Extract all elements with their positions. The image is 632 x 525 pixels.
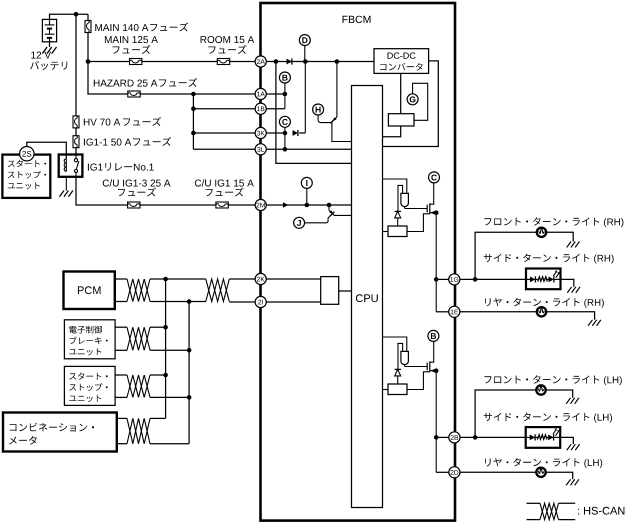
wire 3K diode out: [299, 132, 305, 134]
wire to 1E circle: [436, 311, 449, 313]
junction node hazard 1A: [191, 92, 196, 97]
wire ss CAN-H: [115, 374, 127, 376]
wire CU fuse to 2M: [228, 204, 255, 206]
connector 2M: [255, 199, 266, 210]
junction 2M I: [305, 203, 310, 208]
wire battery ground stub: [49, 42, 51, 47]
node J wire: [305, 214, 332, 223]
wire 1B internal: [266, 108, 285, 110]
node H: [313, 104, 324, 115]
CPU label: [356, 294, 378, 302]
wire side RH gnd: [561, 279, 574, 286]
wire 1G left: [436, 278, 449, 280]
start-stop unit 2 text: [69, 373, 107, 380]
node C: [279, 116, 290, 127]
junction CAN-H ss: [163, 373, 168, 378]
wire 2A branch to CPU: [276, 62, 352, 164]
wire gate LH: [404, 365, 406, 367]
wire side LH gnd: [560, 437, 573, 444]
ground relay coil: [59, 191, 72, 197]
junction 2A branch2: [303, 59, 308, 64]
connector 2I: [255, 296, 266, 307]
fuse IG1-1 50A: [73, 136, 79, 148]
wire ROOM to 2A: [230, 61, 255, 63]
wire DC-DC out right: [383, 61, 439, 147]
battery label 12V: [31, 52, 51, 59]
wire between CU fuses: [140, 204, 216, 206]
junction 2A branch3: [335, 59, 340, 64]
wire feedback right LH: [407, 372, 430, 390]
label side LH: [484, 413, 612, 423]
node I: [301, 177, 312, 188]
wire coil ground: [65, 177, 67, 191]
label HAZARD 25A: [94, 80, 158, 87]
diode D2A: [287, 59, 292, 65]
zener diode RH: [395, 210, 401, 212]
wire ss CAN-H to bus: [150, 374, 166, 376]
wire HAZARD to 1A: [140, 93, 255, 95]
ground battery: [42, 47, 56, 54]
twisted pair FBCM: [206, 279, 230, 302]
CAN-L bus vertical: [188, 302, 190, 444]
junction CAN-L bus PCM: [187, 299, 192, 304]
feedback box LH: [388, 384, 407, 395]
node I stub: [306, 188, 308, 205]
wire to 2D circle: [436, 471, 449, 473]
label ROOM 15A: [201, 36, 255, 43]
wire combo CAN-H to bus: [150, 417, 166, 419]
connector 1A: [255, 88, 266, 99]
regulator box: [388, 114, 414, 126]
start-stop unit box: [2, 155, 50, 198]
wire 3K to 2A node: [304, 62, 306, 134]
connector 2B: [449, 432, 460, 443]
wire source to 1E: [435, 213, 437, 312]
wire source to 2D: [435, 371, 437, 473]
wire feedback left RH: [383, 231, 389, 233]
node D stub: [304, 46, 306, 62]
LED side marker RH box: [526, 269, 561, 290]
node J: [294, 217, 305, 228]
junction 2M J: [327, 203, 332, 208]
node D: [299, 35, 310, 46]
FBCM label: [343, 16, 371, 23]
wire feedback left LH: [383, 389, 389, 391]
LED side RH internals: [526, 270, 561, 282]
fuse MAIN 125A: [130, 59, 142, 65]
fuse C/U IG1 15A: [216, 202, 228, 208]
FBCM module box: [261, 3, 456, 521]
junction node top: [74, 12, 79, 17]
wire braid to 2K: [229, 278, 255, 280]
wire front LH: [475, 390, 536, 437]
wire brake CAN-H: [115, 326, 127, 328]
twisted pair combo: [127, 418, 150, 443]
label front RH: [484, 217, 623, 227]
node C stub: [284, 127, 286, 149]
wire PCM CAN-H to bus: [150, 278, 206, 280]
wire PCM CAN-H: [115, 278, 127, 280]
junction 2B: [434, 435, 439, 440]
DC-DC converter box: [374, 49, 429, 74]
junction 2A branch1: [274, 59, 279, 64]
wire CPU to driver RH: [383, 179, 407, 193]
fuse HV 70A: [73, 116, 79, 128]
connector 1B: [255, 103, 266, 114]
junction 1G: [434, 277, 439, 282]
wire 2S to relay coil: [27, 142, 67, 158]
PCM box: [64, 272, 115, 310]
combination meter text: [10, 423, 95, 432]
MOSFET Q RH: [426, 205, 428, 213]
relay IG1 No.1 box: [59, 155, 83, 177]
node B: [279, 72, 290, 83]
wire 1A internal: [266, 93, 285, 95]
label C/U IG1 15A: [195, 179, 254, 186]
battery label katakana: [30, 61, 67, 70]
twisted pair PCM: [127, 279, 150, 302]
fuse HAZARD 25A: [128, 91, 140, 97]
wire battery top: [50, 14, 89, 19]
label HV 70A: [84, 119, 120, 126]
wire braid to 2I: [229, 301, 255, 303]
wire 2K internal: [266, 278, 320, 280]
node G: [407, 94, 418, 105]
connector 1G: [449, 274, 460, 285]
DC-DC label: [388, 52, 416, 58]
twisted pair ss: [127, 375, 150, 397]
driver gate bracket LH: [398, 343, 403, 369]
ground front LH: [566, 398, 579, 404]
wire ss CAN-L: [115, 396, 127, 398]
node B2: [428, 330, 439, 341]
fuse MAIN 140A: [85, 21, 91, 33]
wire rear RH gnd: [546, 312, 594, 320]
wire MAIN140 to junction: [87, 33, 89, 62]
fuse C/U IG1-3 25A: [128, 202, 140, 208]
junction node C 3K: [283, 131, 288, 136]
wire 2A node: [266, 61, 374, 63]
transistor Q-H: [336, 62, 338, 118]
junction source LH: [434, 368, 439, 373]
wire MAIN125 row left: [88, 61, 130, 63]
junction node hazard 3K: [191, 131, 196, 136]
wire combo CAN-L to bus: [150, 443, 189, 445]
ground rear RH: [588, 320, 601, 326]
fuse ROOM 15A: [217, 59, 229, 65]
junction CAN-H bus PCM: [163, 277, 168, 282]
CPU box: [352, 86, 383, 508]
wire 2M internal: [266, 204, 351, 206]
brake unit box: [64, 320, 115, 359]
connector 2A: [255, 56, 266, 67]
transistor Q-J: [328, 205, 330, 210]
ground front RH: [567, 242, 580, 248]
wire front RH: [475, 232, 537, 279]
wire to MAIN140 fuse: [87, 14, 89, 20]
CAN-H bus vertical: [165, 279, 167, 418]
connector 2D: [449, 467, 460, 478]
ground side LH: [567, 444, 580, 450]
start-stop unit 2 box: [64, 366, 115, 405]
wire front RH gnd: [546, 232, 573, 241]
diode D3K: [293, 130, 298, 136]
diode arrow 2M: [283, 202, 288, 207]
connector 2K: [255, 273, 266, 284]
wire DC-DC bottom: [400, 73, 402, 113]
wire to 3L: [193, 148, 255, 150]
wire feedback right RH: [407, 214, 430, 232]
legend HS-CAN lines: [527, 502, 541, 504]
legend HS-CAN text: [578, 507, 624, 515]
wire to 1B: [193, 108, 255, 110]
label rear RH: [485, 298, 604, 308]
junction CAN-L brake: [187, 348, 192, 353]
wire IG1-1 to relay: [75, 148, 77, 155]
PCM label: [78, 286, 101, 294]
junction CAN-L ss: [187, 395, 192, 400]
bulb rear RH: [537, 307, 546, 316]
wire rear LH gnd: [546, 472, 573, 479]
wire hazard vertical: [192, 94, 194, 149]
node G loop: [413, 83, 428, 120]
connector 2S: [20, 147, 34, 161]
node C2: [429, 172, 440, 183]
label MAIN 125A: [105, 36, 158, 43]
wire 3K internal: [266, 132, 285, 134]
wire 2B out: [460, 436, 526, 438]
junction front RH: [473, 277, 478, 282]
feedback box RH: [388, 226, 407, 237]
brake unit text: [69, 326, 102, 334]
LED side marker LH box: [526, 427, 561, 448]
node B stub: [284, 83, 286, 109]
wire PCM CAN-L: [115, 301, 127, 303]
zener diode LH: [395, 368, 401, 370]
ground rear LH: [566, 479, 579, 485]
MOSFET Q LH: [426, 363, 428, 371]
connector 3K: [255, 127, 266, 138]
wire 2B left: [436, 436, 449, 438]
junction node hazard 1B: [191, 106, 196, 111]
junction source RH: [434, 210, 439, 215]
wire main bus down: [75, 14, 77, 116]
junction front LH: [473, 435, 478, 440]
label C/U IG1-3: [103, 179, 171, 186]
node H wire: [318, 115, 330, 123]
junction CAN-H brake: [163, 325, 168, 330]
relay coil: [65, 159, 67, 172]
bulb rear LH: [536, 468, 545, 477]
junction node B 1A: [283, 92, 288, 97]
wire regulator to CPU: [383, 126, 401, 137]
wire ss CAN-L to bus: [150, 396, 189, 398]
wire 2I internal: [266, 301, 320, 303]
wire 2D out: [460, 471, 536, 473]
junction node C 3L: [283, 147, 288, 152]
wire combo CAN-H: [117, 417, 127, 419]
wire combo CAN-L: [117, 443, 127, 445]
legend twisted pair: [540, 503, 559, 519]
driver gate bracket RH: [398, 185, 403, 211]
wire relay switch to CU fuses: [76, 177, 128, 205]
wire 3L internal: [266, 148, 351, 150]
wire front LH gnd: [546, 390, 573, 398]
LED side LH internals: [526, 428, 561, 440]
wire 1G out: [460, 278, 526, 280]
wire to 3K: [193, 132, 255, 134]
battery B1 12V: [42, 19, 56, 41]
wire 1E out: [460, 311, 537, 313]
label side RH: [484, 254, 614, 264]
label IG1 relay: [88, 163, 154, 171]
wire gate RH: [404, 207, 406, 209]
wire PCM CAN-L to bus: [150, 301, 206, 303]
bulb front LH: [536, 385, 545, 394]
ground side RH: [567, 287, 580, 293]
label IG1-1 50A: [84, 139, 131, 146]
connector 1E: [449, 306, 460, 317]
label MAIN 140A: [95, 24, 148, 31]
wire between fuses: [75, 128, 77, 136]
wire brake CAN-L: [115, 349, 127, 351]
wire brake CAN-L to bus: [150, 349, 189, 351]
gate driver LH: [401, 351, 409, 364]
combination meter box: [3, 413, 117, 452]
label front LH: [484, 375, 621, 385]
wire CPU to driver LH: [383, 337, 407, 351]
wire down to HAZARD row: [88, 62, 128, 95]
relay switch: [75, 155, 77, 159]
wire interface to CPU: [339, 290, 352, 292]
start-stop unit text: [8, 160, 46, 167]
junction node MAIN125 branch: [86, 59, 91, 64]
label rear LH: [485, 458, 602, 468]
CAN interface box: [321, 277, 339, 305]
gate driver RH: [401, 193, 409, 206]
bulb front RH: [537, 228, 546, 237]
wire MAIN125 to ROOM fuse: [142, 61, 217, 63]
wire brake CAN-H to bus: [150, 326, 166, 328]
connector 3L: [255, 144, 266, 155]
twisted pair brake: [127, 327, 150, 350]
